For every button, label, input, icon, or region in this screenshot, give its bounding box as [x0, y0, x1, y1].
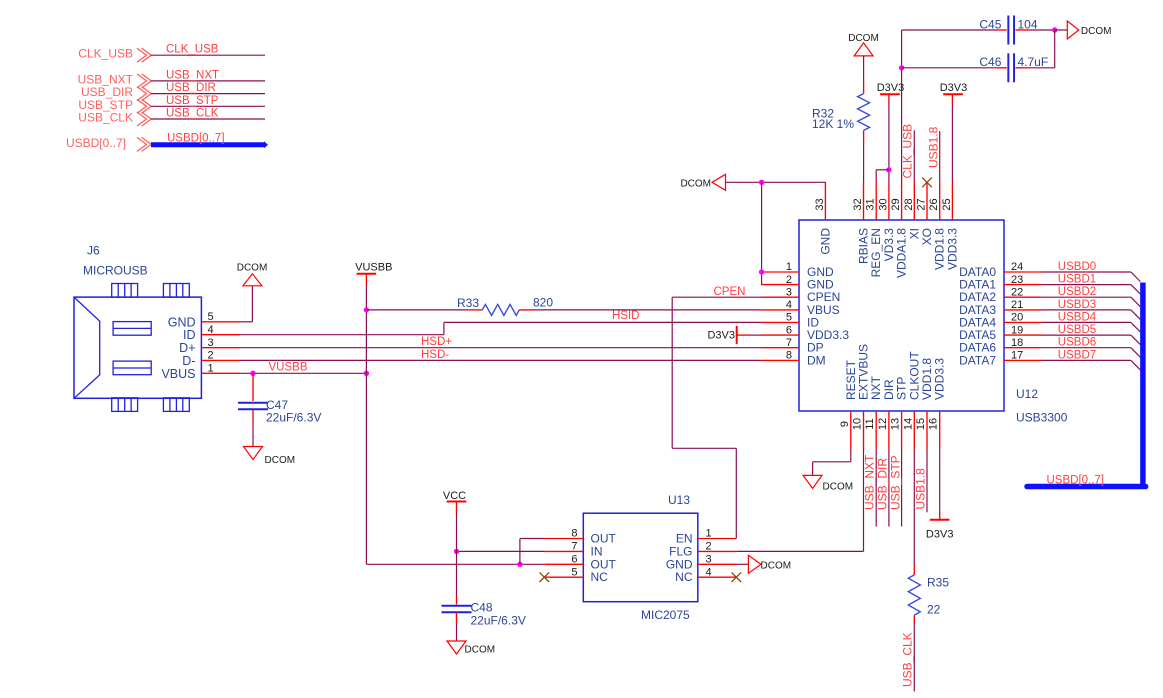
svg-text:USBD6: USBD6: [1058, 337, 1096, 349]
wire R33 to U12 VBUS: [533, 309, 761, 311]
wire VCC to U13 IN: [457, 550, 545, 552]
wire VUSBB to U13 OUT: [366, 563, 544, 565]
svg-text:DCOM: DCOM: [265, 455, 296, 466]
svg-text:16: 16: [928, 418, 940, 430]
svg-text:D3V3: D3V3: [926, 528, 954, 540]
wire VDDA1.8 vertical: [901, 30, 903, 182]
U13 body: [583, 513, 698, 602]
svg-text:9: 9: [839, 421, 851, 427]
IC U12 body: [799, 220, 1004, 411]
svg-text:NC: NC: [591, 570, 609, 584]
svg-text:USB_NXT: USB_NXT: [166, 69, 219, 81]
wire USB_DIR net: [888, 450, 890, 527]
svg-text:DATA7: DATA7: [959, 353, 996, 367]
svg-text:USBD3: USBD3: [1058, 299, 1096, 311]
wire USB_STP net: [901, 450, 903, 527]
svg-text:VCC: VCC: [443, 490, 466, 502]
svg-text:22uF/6.3V: 22uF/6.3V: [471, 614, 526, 628]
wire USB_NXT net: [875, 450, 877, 527]
wire USBD1: [1041, 284, 1131, 286]
svg-text:USBD2: USBD2: [1058, 286, 1096, 298]
svg-text:10: 10: [852, 418, 864, 430]
svg-text:GND: GND: [818, 228, 832, 255]
svg-text:CLK_USB: CLK_USB: [166, 44, 219, 56]
wire net USB_NXT: [151, 80, 265, 82]
bus USBD[0..7] bottom horizontal: [1027, 484, 1146, 490]
svg-text:HSD+: HSD+: [421, 336, 452, 348]
svg-text:VUSBB: VUSBB: [355, 262, 392, 274]
wire HSID net: [240, 334, 444, 336]
svg-text:USBD0: USBD0: [1058, 261, 1096, 273]
capacitor C47: [252, 373, 254, 401]
wire XI net: [913, 130, 915, 182]
svg-text:GND: GND: [168, 315, 196, 329]
wire net CLK_USB: [151, 54, 265, 56]
svg-text:MICROUSB: MICROUSB: [83, 264, 148, 278]
svg-text:26: 26: [928, 198, 940, 210]
svg-text:CPEN: CPEN: [714, 286, 746, 298]
svg-text:CLK_USB: CLK_USB: [78, 47, 133, 61]
svg-text:12K 1%: 12K 1%: [812, 117, 854, 131]
svg-text:GND: GND: [666, 557, 693, 571]
svg-text:EN: EN: [676, 532, 693, 546]
wire C46 up to DCOM node: [1054, 30, 1056, 68]
wire VUSBB vertical rail: [365, 286, 367, 564]
bus USBD[0..7] right vertical: [1140, 283, 1146, 487]
svg-text:31: 31: [865, 198, 877, 210]
svg-text:HSD-: HSD-: [421, 349, 449, 361]
svg-text:DCOM: DCOM: [823, 482, 854, 493]
resistor R33: [366, 309, 468, 311]
no-connect X U13 pin4: [732, 572, 742, 582]
svg-text:VBUS: VBUS: [161, 367, 195, 381]
svg-text:C46: C46: [979, 55, 1001, 69]
svg-text:U13: U13: [668, 493, 690, 507]
power DCOM (down triangle under C48): [447, 641, 466, 654]
svg-text:USBD7: USBD7: [1058, 349, 1096, 361]
svg-text:29: 29: [890, 198, 902, 210]
junction pin1: [759, 269, 764, 274]
svg-text:DCOM: DCOM: [465, 645, 496, 656]
svg-text:USBD[0..7]: USBD[0..7]: [167, 133, 225, 145]
wire U13 OUT pin8 tie: [520, 538, 544, 540]
svg-text:VUSBB: VUSBB: [269, 362, 308, 374]
junction DCOM branch: [759, 180, 764, 185]
junction C46 tap: [899, 65, 904, 70]
svg-text:OUT: OUT: [591, 532, 617, 546]
svg-text:U12: U12: [1016, 387, 1038, 401]
resistor R35: [913, 450, 915, 567]
svg-text:22uF/6.3V: 22uF/6.3V: [266, 411, 321, 425]
svg-text:D3V3: D3V3: [877, 82, 905, 94]
wire HSD+ net: [240, 347, 761, 349]
svg-text:CLK_USB: CLK_USB: [900, 124, 914, 179]
junction VUSBB rail/VBUS: [364, 371, 369, 376]
svg-text:22: 22: [927, 602, 941, 616]
wire net USB_STP: [151, 105, 265, 107]
power D3V3 (below pin16): [939, 450, 941, 511]
svg-text:DCOM: DCOM: [237, 263, 268, 274]
svg-text:DCOM: DCOM: [680, 178, 711, 189]
svg-text:USB_DIR: USB_DIR: [166, 82, 216, 94]
svg-text:4.7uF: 4.7uF: [1018, 55, 1049, 69]
power DCOM (right triangle top): [1067, 21, 1079, 39]
svg-text:USB_NXT: USB_NXT: [863, 454, 877, 510]
wire net USB_DIR: [151, 93, 265, 95]
capacitor C46: [902, 67, 998, 69]
wire U13 GND to DCOM: [736, 563, 748, 565]
svg-text:FLG: FLG: [669, 544, 692, 558]
svg-text:USB_STP: USB_STP: [888, 455, 902, 510]
svg-text:C48: C48: [471, 601, 493, 615]
wire HSD- net: [240, 359, 761, 361]
wire USBD4: [1041, 321, 1131, 323]
wire USBD0: [1041, 271, 1131, 273]
junction DCOM top: [1052, 27, 1057, 32]
wire net USB_CLK: [151, 118, 265, 120]
svg-text:USBD4: USBD4: [1058, 311, 1097, 323]
svg-text:D3V3: D3V3: [940, 82, 968, 94]
svg-text:USBD[0..7]: USBD[0..7]: [66, 136, 126, 150]
no-connect X U12 pin27: [922, 178, 932, 188]
wire R32 to pin32: [863, 143, 865, 182]
no-connect X U13 pin5: [540, 572, 550, 582]
svg-text:13: 13: [890, 418, 902, 430]
svg-text:OUT: OUT: [591, 557, 617, 571]
svg-text:30: 30: [877, 198, 889, 210]
junction pin30/pin31 tie: [886, 167, 891, 172]
wire D3V3 to pin30: [888, 106, 890, 182]
svg-text:J6: J6: [87, 244, 100, 258]
svg-text:USB1.8: USB1.8: [914, 468, 928, 510]
svg-text:USB1.8: USB1.8: [926, 126, 940, 168]
svg-text:C45: C45: [979, 17, 1001, 31]
svg-text:25: 25: [941, 198, 953, 210]
wire USBD6: [1041, 347, 1131, 349]
svg-text:R33: R33: [457, 296, 479, 310]
wire USBD3: [1041, 309, 1131, 311]
svg-text:IN: IN: [591, 544, 603, 558]
junction U13 OUT pins: [517, 562, 522, 567]
power DCOM (down triangle at pin9): [803, 475, 822, 488]
bus USBD[0..7] left: [151, 142, 264, 147]
svg-text:DM: DM: [807, 353, 826, 367]
wire VCC rail: [456, 514, 458, 596]
power DCOM (down triangle under C47): [244, 447, 263, 460]
svg-text:VDD3.3: VDD3.3: [933, 358, 947, 400]
svg-text:HSID: HSID: [612, 310, 639, 322]
svg-text:DCOM: DCOM: [1081, 26, 1112, 37]
junction C47/VBUS: [250, 371, 255, 376]
svg-text:D3V3: D3V3: [707, 330, 735, 342]
resistor R32: [863, 56, 865, 81]
wire USBD2: [1041, 296, 1131, 298]
svg-text:ID: ID: [183, 328, 196, 342]
svg-text:104: 104: [1018, 17, 1038, 31]
junction VCC/IN: [454, 549, 459, 554]
wire VDD1.8 net: [939, 131, 941, 182]
svg-text:28: 28: [903, 198, 915, 210]
wire GND net: [240, 321, 252, 323]
wire USBD7: [1041, 359, 1131, 361]
svg-text:USB_CLK: USB_CLK: [900, 632, 914, 687]
svg-text:14: 14: [902, 418, 914, 430]
power DCOM (right triangle at U13 GND): [748, 555, 761, 573]
svg-text:USB3300: USB3300: [1016, 411, 1068, 425]
svg-text:R35: R35: [927, 575, 949, 589]
svg-text:USBD5: USBD5: [1058, 324, 1096, 336]
wire VUSBB net (J6 VBUS): [240, 372, 366, 374]
svg-text:MIC2075: MIC2075: [641, 608, 690, 622]
svg-text:USB_STP: USB_STP: [166, 95, 219, 107]
svg-text:D-: D-: [182, 354, 195, 368]
svg-text:DCOM: DCOM: [761, 560, 792, 571]
wire USBD5: [1041, 334, 1131, 336]
svg-text:12: 12: [877, 418, 889, 430]
capacitor C48: [442, 605, 472, 607]
svg-text:32: 32: [852, 198, 864, 210]
svg-text:820: 820: [533, 296, 553, 310]
wire RESET to DCOM: [850, 450, 852, 462]
svg-text:NC: NC: [675, 570, 693, 584]
wire CPEN net: [672, 296, 761, 298]
svg-text:USB_CLK: USB_CLK: [166, 108, 219, 120]
wire USB1.8 net (pin15): [926, 450, 928, 513]
wire USB_CLK net: [913, 624, 915, 691]
svg-text:USBD1: USBD1: [1058, 274, 1096, 286]
connector J6 body: [74, 297, 201, 398]
wire U13 FLG to U12 EXTVBUS: [736, 550, 863, 552]
svg-text:15: 15: [915, 418, 927, 430]
svg-text:USBD[0..7]: USBD[0..7]: [1047, 475, 1105, 487]
wire GND branch to pins 1,2: [761, 182, 763, 284]
capacitor C45: [902, 29, 998, 31]
svg-text:33: 33: [814, 198, 826, 210]
svg-text:27: 27: [916, 198, 928, 210]
wire DCOM to pin33: [726, 181, 826, 183]
svg-text:11: 11: [864, 418, 876, 429]
wire tie to pin31: [876, 169, 889, 171]
junction VUSBB/R33: [364, 307, 369, 312]
svg-text:VDD3.3: VDD3.3: [945, 228, 959, 270]
power DCOM (up triangle at J6): [243, 274, 262, 286]
svg-text:USB_CLK: USB_CLK: [78, 111, 133, 125]
